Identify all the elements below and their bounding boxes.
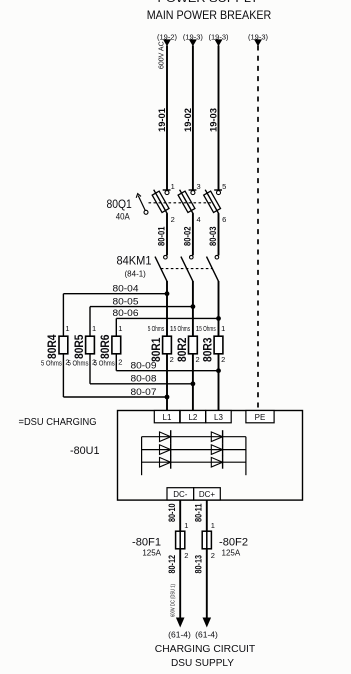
svg-text:5: 5 bbox=[222, 182, 226, 191]
diode V11 bbox=[160, 432, 171, 442]
svg-text:2: 2 bbox=[171, 215, 175, 224]
terminal L2 bbox=[180, 411, 205, 423]
svg-text:L3: L3 bbox=[214, 413, 223, 422]
wire 80-06 bbox=[116, 317, 218, 319]
contactor 84KM1 pole 1 fixed contact bbox=[164, 255, 168, 259]
svg-text:2: 2 bbox=[118, 358, 122, 367]
breaker 80Q1 manual operator bbox=[136, 194, 148, 215]
svg-text:600V DC (DSU 1): 600V DC (DSU 1) bbox=[171, 584, 177, 617]
node junction 80-05 / L2 bbox=[191, 304, 196, 309]
svg-text:5 Ohms: 5 Ohms bbox=[174, 324, 191, 333]
svg-text:3: 3 bbox=[197, 182, 201, 191]
rectifier rail 2 bbox=[142, 449, 246, 451]
rectifier right bus bbox=[245, 437, 247, 476]
off-page arrow into line L2 bbox=[189, 39, 197, 46]
svg-text:1: 1 bbox=[184, 521, 188, 530]
resistor 80R4 body bbox=[59, 336, 68, 354]
breaker 80Q1 pole 1 fixed terminal bbox=[163, 189, 171, 191]
svg-text:80-05: 80-05 bbox=[113, 296, 139, 306]
wire 80-10 bbox=[179, 500, 181, 619]
wire 80-11 bbox=[206, 500, 208, 619]
breaker 80Q1 mechanical linkage (dashed) bbox=[149, 202, 214, 204]
svg-text:125A: 125A bbox=[222, 549, 241, 558]
wire 80-04 bbox=[63, 293, 167, 295]
svg-text:1: 1 bbox=[118, 324, 122, 333]
contactor 84KM1 pole 2 blade bbox=[181, 257, 193, 282]
wire 80-05 bbox=[90, 306, 193, 308]
svg-text:80-13: 80-13 bbox=[194, 555, 204, 574]
off-page arrow DC- output bbox=[176, 618, 185, 628]
svg-text:80-10: 80-10 bbox=[167, 504, 177, 523]
wire 80-03 breaker to contactor bbox=[218, 214, 220, 256]
svg-text:2: 2 bbox=[211, 551, 215, 560]
svg-text:CHARGING CIRCUIT: CHARGING CIRCUIT bbox=[155, 643, 256, 655]
contactor 84KM1 mechanical linkage (dashed) bbox=[161, 268, 213, 270]
wire pole 2 contactor to DSU input bbox=[192, 281, 194, 411]
wire PE dashed line down to PE terminal bbox=[257, 46, 259, 411]
svg-text:2: 2 bbox=[170, 355, 174, 364]
rectifier left bus bbox=[141, 437, 143, 476]
svg-text:125A: 125A bbox=[142, 549, 161, 558]
svg-text:2: 2 bbox=[184, 551, 188, 560]
wire 80-07 bbox=[63, 396, 167, 398]
svg-text:2: 2 bbox=[221, 355, 225, 364]
svg-text:80R2: 80R2 bbox=[175, 337, 189, 362]
svg-text:40A: 40A bbox=[116, 212, 130, 222]
svg-text:1: 1 bbox=[92, 324, 96, 333]
svg-text:19-03: 19-03 bbox=[209, 108, 220, 132]
svg-text:2: 2 bbox=[196, 355, 200, 364]
terminal DC- bbox=[167, 488, 194, 500]
wire 80-09 bbox=[116, 370, 218, 372]
svg-text:80-08: 80-08 bbox=[131, 374, 157, 384]
fuse 80F1 body bbox=[176, 531, 185, 549]
resistor 80R4 leads bbox=[62, 294, 64, 337]
terminal L1 bbox=[154, 411, 179, 423]
svg-text:-80F1: -80F1 bbox=[132, 537, 161, 549]
svg-text:PE: PE bbox=[255, 413, 266, 422]
svg-text:80R5: 80R5 bbox=[72, 334, 86, 359]
svg-text:80R3: 80R3 bbox=[201, 337, 215, 362]
svg-text:80R6: 80R6 bbox=[98, 334, 112, 359]
resistor 80R1 body (in line L1) bbox=[163, 336, 172, 354]
svg-text:5 Ohms: 5 Ohms bbox=[199, 324, 216, 333]
wire feeder L2 down to breaker bbox=[192, 46, 194, 191]
svg-text:L1: L1 bbox=[163, 413, 172, 422]
terminal PE bbox=[246, 411, 274, 423]
svg-text:DC+: DC+ bbox=[199, 490, 216, 499]
off-page arrow into line L3 bbox=[215, 39, 223, 46]
resistor 80R5 body bbox=[86, 336, 95, 354]
svg-text:L2: L2 bbox=[188, 413, 197, 422]
node junction 80-07 / L1 bbox=[165, 395, 170, 400]
svg-text:80-12: 80-12 bbox=[167, 555, 177, 574]
wire feeder L3 down to breaker bbox=[218, 46, 220, 191]
svg-text:5 Ohms: 5 Ohms bbox=[148, 324, 165, 333]
breaker 80Q1 pole 1 fuse-switch blade bbox=[154, 190, 168, 214]
contactor 84KM1 pole 1 blade bbox=[155, 257, 167, 282]
wire pole 3 contactor to DSU input bbox=[218, 281, 220, 411]
converter 80U1 enclosure box bbox=[118, 411, 303, 501]
svg-text:80R1: 80R1 bbox=[149, 337, 163, 362]
wire pole 1 contactor to DSU input bbox=[166, 281, 168, 411]
svg-text:1: 1 bbox=[221, 324, 225, 333]
svg-text:19-01: 19-01 bbox=[157, 107, 168, 132]
breaker 80Q1 pole 2 fuse-switch blade bbox=[180, 190, 194, 214]
svg-text:19-02: 19-02 bbox=[183, 108, 194, 132]
wire feeder L1 down to breaker bbox=[166, 46, 168, 191]
wire 80-01 breaker to contactor bbox=[166, 214, 168, 256]
node junction 80-04 / L1 bbox=[165, 291, 170, 296]
svg-text:80-03: 80-03 bbox=[208, 227, 218, 247]
svg-text:80-06: 80-06 bbox=[113, 308, 139, 318]
svg-text:1: 1 bbox=[211, 521, 215, 530]
svg-text:4: 4 bbox=[197, 215, 201, 224]
svg-text:(61-4): (61-4) bbox=[168, 630, 191, 640]
off-page arrow into PE line bbox=[254, 39, 262, 46]
svg-text:80-04: 80-04 bbox=[113, 284, 139, 294]
resistor 80R5 leads bbox=[89, 307, 91, 337]
wire 80-02 breaker to contactor bbox=[192, 214, 194, 256]
fuse 80F2 body bbox=[202, 531, 211, 549]
node junction 80-06 / L3 bbox=[216, 316, 221, 321]
svg-text:POWER SUPPLY: POWER SUPPLY bbox=[158, 0, 260, 5]
svg-text:6: 6 bbox=[222, 215, 226, 224]
node junction 80-09 / L3 bbox=[216, 368, 221, 373]
svg-text:(61-4): (61-4) bbox=[195, 630, 218, 640]
contactor 84KM1 pole 3 blade bbox=[207, 257, 219, 282]
diode V31 bbox=[160, 457, 171, 467]
svg-text:5 Ohms: 5 Ohms bbox=[41, 359, 62, 368]
contactor 84KM1 pole 3 fixed contact bbox=[215, 255, 219, 259]
diode V21 bbox=[160, 445, 171, 455]
svg-text:80Q1: 80Q1 bbox=[107, 199, 132, 211]
contactor 84KM1 pole 2 fixed contact bbox=[190, 255, 194, 259]
svg-text:80-07: 80-07 bbox=[131, 387, 157, 397]
breaker 80Q1 pole 2 fixed terminal bbox=[189, 189, 197, 191]
rectifier rail 3 bbox=[142, 461, 246, 463]
off-page arrow into line L1 bbox=[163, 39, 171, 46]
svg-text:MAIN POWER BREAKER: MAIN POWER BREAKER bbox=[147, 8, 272, 22]
off-page arrow DC+ output bbox=[203, 618, 212, 628]
svg-text:DC-: DC- bbox=[173, 490, 188, 499]
resistor 80R6 body bbox=[112, 336, 121, 354]
terminal DC+ bbox=[194, 488, 221, 500]
svg-text:=DSU CHARGING: =DSU CHARGING bbox=[19, 416, 97, 428]
svg-text:-80F2: -80F2 bbox=[219, 537, 248, 549]
diode V12 bbox=[211, 432, 222, 442]
svg-text:80-11: 80-11 bbox=[194, 504, 204, 523]
svg-text:1: 1 bbox=[171, 182, 175, 191]
resistor 80R6 leads bbox=[115, 318, 117, 336]
svg-text:600V AC: 600V AC bbox=[159, 41, 166, 69]
svg-text:5 Ohms: 5 Ohms bbox=[94, 359, 115, 368]
svg-text:(84-1): (84-1) bbox=[125, 270, 147, 279]
terminal L3 bbox=[206, 411, 231, 423]
diode V32 bbox=[211, 457, 222, 467]
svg-text:80-01: 80-01 bbox=[157, 227, 167, 247]
wire 80-08 bbox=[90, 383, 193, 385]
diode V22 bbox=[211, 445, 222, 455]
svg-text:5 Ohms: 5 Ohms bbox=[68, 359, 89, 368]
breaker 80Q1 pole 3 fuse-switch blade bbox=[205, 190, 219, 214]
svg-text:DSU SUPPLY: DSU SUPPLY bbox=[171, 657, 234, 669]
svg-text:1: 1 bbox=[65, 324, 69, 333]
resistor 80R2 body (in line L2) bbox=[189, 336, 198, 354]
svg-text:84KM1: 84KM1 bbox=[117, 256, 152, 268]
node junction 80-08 / L2 bbox=[191, 381, 196, 386]
svg-text:80-02: 80-02 bbox=[183, 227, 193, 247]
svg-text:-80U1: -80U1 bbox=[70, 445, 100, 457]
svg-text:80R4: 80R4 bbox=[45, 334, 59, 359]
rectifier rail 1 bbox=[142, 436, 246, 438]
resistor 80R3 body (in line L3) bbox=[214, 336, 223, 354]
breaker 80Q1 pole 3 fixed terminal bbox=[214, 189, 222, 191]
